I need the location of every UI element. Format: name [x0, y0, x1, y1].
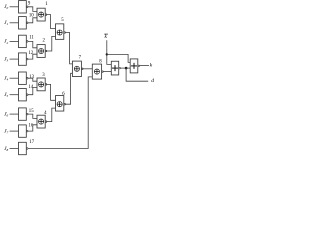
adder A2 (half-adder box)	[130, 59, 139, 73]
wire box 13 output to xor 3 top input	[28, 78, 37, 81]
wire J0 to box 9	[10, 6, 19, 8]
svg-text:J3: J3	[4, 56, 8, 62]
pin bubble output box 14	[26, 94, 28, 96]
svg-text:4: 4	[44, 111, 47, 116]
svg-text:1: 1	[45, 2, 48, 7]
wire xor 5 output to xor 7 top input	[65, 33, 73, 64]
wire xor 1 output to xor 5 top input	[46, 15, 55, 29]
xor gate U3 (box 3)	[37, 78, 47, 91]
wire xor 3 output to xor 6 top input	[46, 84, 55, 100]
pin bubble output box 9	[26, 6, 28, 8]
box 16 (input cell 16)	[19, 125, 27, 137]
svg-text:13: 13	[29, 75, 34, 80]
svg-text:J4: J4	[4, 76, 8, 82]
box 10 (input cell 10)	[19, 17, 27, 29]
wire J1 to box 10	[10, 22, 19, 24]
box 11 (input cell 11)	[19, 35, 27, 47]
pin bubble output box 16	[26, 130, 28, 132]
wire J4 to box 13	[10, 77, 19, 79]
wire box 12 output to xor 2 bottom input	[28, 54, 37, 59]
xor gate U7 (box 7)	[72, 61, 83, 76]
wire J5 to box 14	[10, 94, 19, 96]
wire box 11 output to xor 2 top input	[28, 41, 37, 47]
xor gate U6 (box 6)	[56, 96, 66, 112]
svg-text:6: 6	[62, 92, 65, 97]
xor gate U4 (box 4)	[37, 115, 47, 128]
pin bubble output box 11	[26, 41, 28, 43]
wire box 14 output to xor 3 bottom input	[28, 88, 37, 95]
wire box 10 output to xor 1 bottom input	[28, 18, 37, 23]
xor gate U8 (box 8)	[92, 64, 103, 79]
wire J6 to box 15	[10, 113, 19, 115]
svg-text:7: 7	[79, 56, 82, 61]
svg-text:J1: J1	[4, 20, 8, 26]
svg-text:J7: J7	[4, 128, 8, 134]
wire adder A1 output to adder A2 lower input	[121, 67, 131, 69]
wire xor 2 output to xor 5 bottom input	[46, 36, 55, 51]
wire junction down to d terminal	[126, 68, 148, 81]
svg-text:11: 11	[29, 36, 34, 41]
wire kbar vertical to adder A1 upper input	[107, 40, 112, 64]
wire J3 to box 12	[10, 58, 19, 60]
overline of kbar	[104, 33, 108, 35]
svg-text:5: 5	[61, 18, 64, 23]
svg-text:J0: J0	[4, 4, 8, 10]
junction kbar branch	[106, 53, 108, 55]
box 17 (input cell 17)	[19, 142, 27, 154]
svg-text:d: d	[151, 78, 154, 84]
pin bubble output box 17	[26, 148, 28, 150]
wire J8 to box 17	[10, 148, 19, 150]
svg-text:8: 8	[99, 59, 102, 64]
svg-text:2: 2	[43, 39, 46, 44]
wire box 17 output to xor 8 bottom input	[28, 77, 92, 149]
pin bubble output box 12	[26, 58, 28, 60]
wire xor 7 output to xor 8 top input	[82, 68, 92, 70]
svg-text:17: 17	[29, 140, 34, 145]
svg-text:k: k	[105, 34, 108, 40]
box 13 (input cell 13)	[19, 72, 27, 84]
box 14 (input cell 14)	[19, 89, 27, 101]
wire xor 8 output to adder A1 lower input	[103, 71, 112, 73]
wire adder A2 output to k terminal	[140, 64, 149, 66]
wire xor 4 output to xor 6 bottom input	[46, 108, 55, 122]
box 9 (input cell 9)	[19, 1, 27, 13]
svg-text:k: k	[150, 62, 153, 68]
wire J7 to box 16	[10, 130, 19, 132]
svg-text:9: 9	[28, 1, 31, 6]
wire box 16 output to xor 4 bottom input	[28, 125, 37, 131]
svg-text:J5: J5	[4, 92, 8, 98]
xor gate U2 (box 2)	[37, 45, 47, 58]
wire xor 6 output to xor 7 bottom input	[65, 73, 73, 104]
pin bubble output box 10	[26, 22, 28, 24]
svg-text:J2: J2	[4, 39, 8, 45]
wire box 15 output to xor 4 top input	[28, 114, 37, 118]
svg-text:J6: J6	[4, 111, 8, 117]
svg-text:J8: J8	[4, 146, 8, 152]
pin bubble output box 15	[26, 113, 28, 115]
wire kbar branch to adder A2 upper input	[107, 54, 130, 62]
junction node sum/carry split	[125, 67, 128, 70]
box 15 (input cell 15)	[19, 108, 27, 120]
adder A1 (half-adder box)	[111, 61, 120, 75]
svg-text:3: 3	[42, 73, 45, 78]
pin bubble output box 13	[26, 77, 28, 79]
xor gate U5 (box 5)	[56, 24, 66, 39]
wire box 9 output to xor 1 top input	[28, 7, 37, 12]
wire J2 to box 11	[10, 40, 19, 42]
svg-text:15: 15	[29, 109, 34, 114]
box 12 (input cell 12)	[19, 53, 27, 65]
xor gate U1 (box 1)	[37, 8, 47, 21]
